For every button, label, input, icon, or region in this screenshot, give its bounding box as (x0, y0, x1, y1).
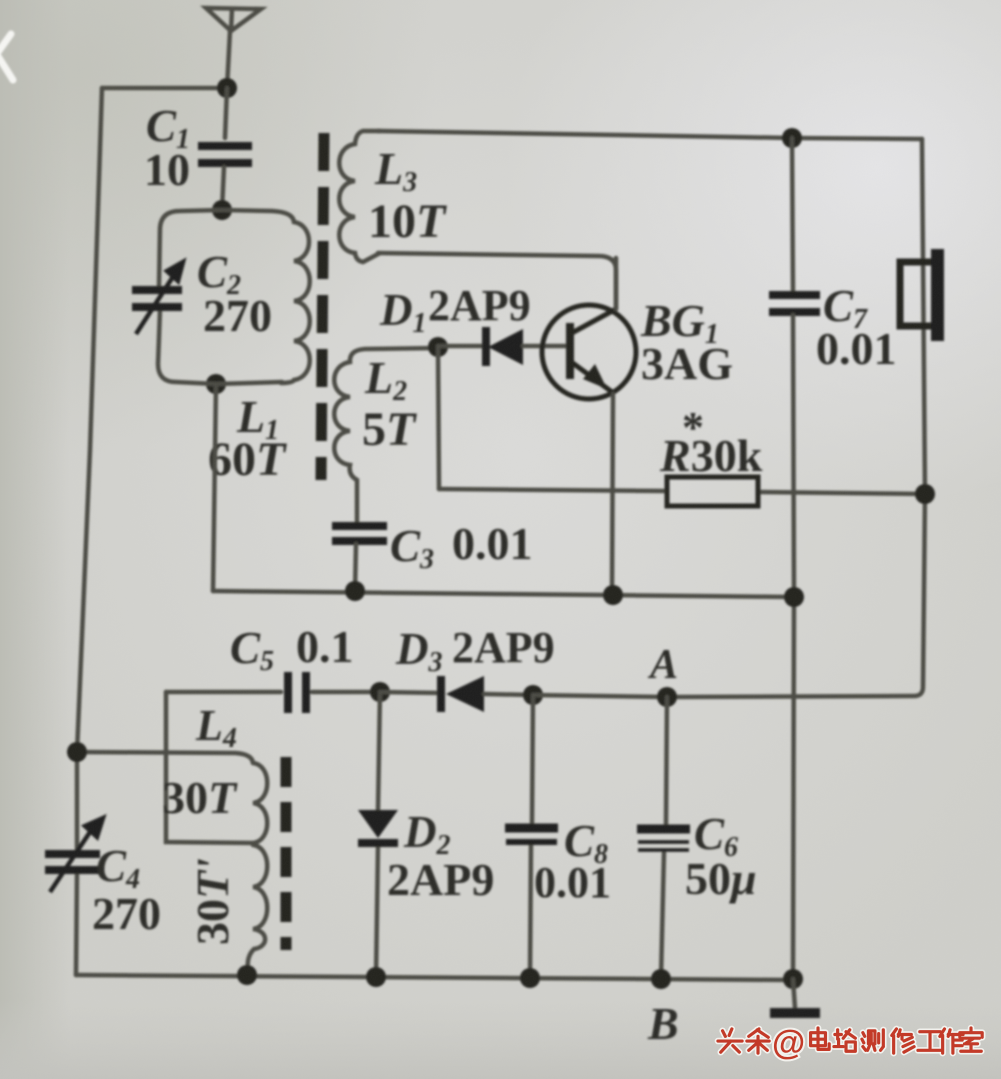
diode D3 (441, 676, 533, 712)
capacitor C5 (288, 672, 306, 713)
wire C7 vertical lower (793, 315, 794, 978)
inductor L1 coil (222, 210, 310, 383)
watermark 头条 @电路测修工作室 (718, 1024, 982, 1062)
close icon X (top-left, white) (0, 34, 13, 80)
node tank bottom (206, 374, 226, 394)
wire antenna to C1 (225, 88, 227, 138)
wire to D3 (380, 692, 441, 693)
wire L3 top rail (378, 131, 922, 139)
wire D2 branch (376, 692, 380, 977)
wire emitter down (612, 394, 613, 595)
transistor BG1 (542, 305, 636, 399)
wire C5 branch left (166, 690, 380, 695)
wire C8 branch (530, 695, 533, 978)
svg-text:@: @ (772, 1024, 805, 1062)
node bottom L4 (237, 965, 257, 985)
wire C7 vertical upper (792, 138, 793, 292)
wire top-left rail (102, 86, 227, 91)
transformer core 1 (dashed) (321, 133, 324, 480)
diode D1 (486, 327, 567, 366)
capacitor C2 plates (132, 290, 182, 307)
wire C6 branch (661, 697, 667, 978)
capacitor C2 arrow (136, 262, 183, 334)
diode D2 (358, 810, 398, 843)
inductor L2 coil (334, 348, 438, 523)
capacitor C1 (198, 146, 252, 163)
wire C3 to rail (355, 544, 356, 591)
node D3 right (523, 685, 543, 705)
wire D1 node down (438, 347, 439, 489)
wire collector up (614, 258, 619, 309)
speaker (900, 249, 944, 341)
node bottom ground (783, 969, 803, 989)
capacitor C4 arrow (50, 818, 103, 892)
inductor L4 upper coil (253, 763, 267, 843)
node top rail C7 (782, 128, 802, 148)
node left bus L4 (67, 742, 87, 762)
wire right bus (667, 139, 925, 697)
node A (657, 687, 677, 707)
capacitor C3 (332, 526, 387, 541)
node bottom D2 (366, 967, 386, 987)
node mid rail C3 (345, 581, 365, 601)
node antenna junction (217, 78, 237, 98)
node tank top (212, 200, 232, 220)
node bottom C8 (520, 968, 540, 988)
node mid rail emitter (603, 585, 623, 605)
node C5 D2 (370, 682, 390, 702)
capacitor C4 plates (45, 854, 100, 870)
capacitor C6 (637, 829, 690, 850)
wire left bus lower (76, 871, 77, 975)
node D1 left (428, 337, 448, 357)
antenna (206, 8, 261, 88)
ground (770, 979, 820, 1013)
wire left bus upper (77, 88, 102, 851)
node right bus resistor (915, 484, 935, 504)
wire L3 bottom to collector (378, 253, 616, 309)
wire bottom rail (76, 975, 793, 980)
wire L4 top rail (77, 752, 253, 763)
wire node to D1 (438, 344, 483, 349)
resistor R (667, 477, 758, 506)
node bottom C6 (651, 969, 671, 989)
inductor L4 lower coil (247, 845, 267, 975)
inductor L3 coil (339, 131, 380, 262)
capacitor C8 (505, 828, 558, 842)
wire mid rail (213, 591, 794, 597)
node mid rail C7 (784, 587, 804, 607)
wire L4 tap (166, 692, 253, 843)
capacitor C7 (769, 295, 820, 312)
transformer core 2 (dashed) (281, 757, 292, 950)
wire D3 to A (533, 695, 667, 697)
wire C1 to tank (222, 167, 224, 210)
wire feedback rail (439, 489, 925, 494)
wire tank bottom to lower rail (213, 384, 216, 591)
wire tank loop top/left/bottom (158, 210, 282, 384)
